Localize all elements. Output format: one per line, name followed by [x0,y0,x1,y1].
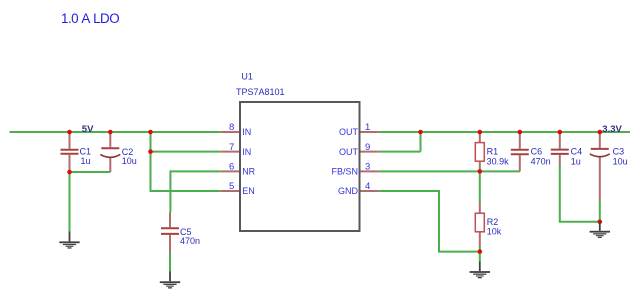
svg-text:1u: 1u [571,157,581,167]
svg-text:GND: GND [338,186,359,196]
svg-text:1u: 1u [81,156,91,166]
svg-text:5: 5 [229,181,234,192]
svg-text:OUT: OUT [339,147,359,157]
svg-text:FB/SN: FB/SN [331,167,358,177]
svg-text:IN: IN [242,127,251,137]
svg-text:R1: R1 [487,146,499,156]
svg-text:7: 7 [229,142,234,153]
svg-text:470n: 470n [531,157,551,167]
svg-text:1: 1 [365,122,370,133]
svg-text:9: 9 [365,142,370,153]
svg-text:IN: IN [242,147,251,157]
svg-text:10k: 10k [487,227,502,237]
svg-text:NR: NR [242,167,255,177]
svg-text:TPS7A8101: TPS7A8101 [236,87,285,97]
svg-text:C6: C6 [531,146,543,156]
svg-text:6: 6 [229,162,234,173]
svg-text:10u: 10u [122,156,137,166]
svg-text:10u: 10u [613,157,628,167]
svg-text:1.0 A LDO: 1.0 A LDO [61,11,119,26]
svg-text:3: 3 [365,162,370,173]
svg-text:EN: EN [242,186,255,196]
svg-text:C4: C4 [571,146,583,156]
svg-text:R2: R2 [487,217,499,227]
svg-text:3.3V: 3.3V [602,124,622,135]
svg-text:30.9k: 30.9k [487,157,510,167]
svg-text:U1: U1 [241,72,253,82]
svg-text:OUT: OUT [339,127,359,137]
svg-text:5V: 5V [82,124,94,135]
svg-text:C3: C3 [613,146,625,156]
svg-text:470n: 470n [180,236,200,246]
svg-text:8: 8 [229,122,234,133]
svg-text:4: 4 [365,181,370,192]
